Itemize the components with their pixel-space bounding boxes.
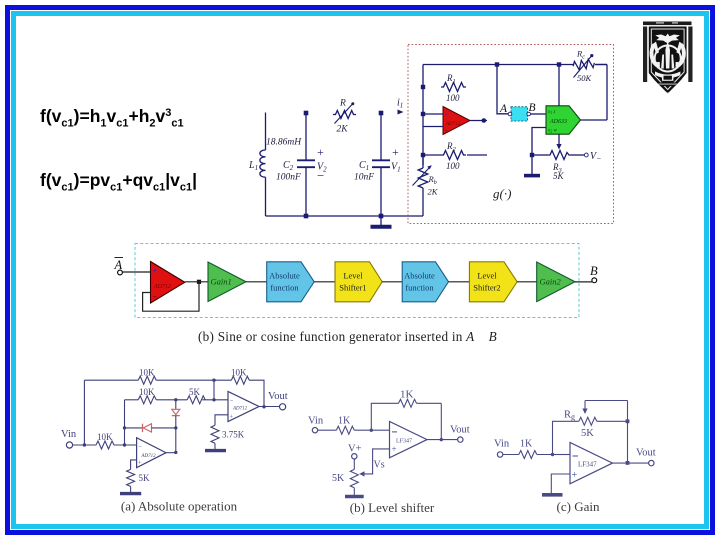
- svg-text:5K: 5K: [332, 473, 345, 484]
- block Level Shifter1 (yellow pentagon): [335, 262, 382, 302]
- wire top: [423, 64, 573, 66]
- wire output (b): [427, 439, 458, 441]
- dashed box g(.): [408, 45, 614, 224]
- ground: [371, 216, 392, 227]
- svg-text:(b) Sine or cosine function ge: (b) Sine or cosine function generator in…: [198, 329, 497, 344]
- wire row2: [125, 399, 139, 401]
- svg-text:10K: 10K: [231, 368, 247, 378]
- wire op-amp inputs: [423, 114, 443, 127]
- wire diode branch vertical: [175, 428, 177, 453]
- terminal V+: [348, 444, 362, 459]
- node Rg right: [626, 419, 630, 423]
- wire feedback up (b): [371, 403, 398, 430]
- svg-text:+: +: [572, 470, 578, 481]
- svg-text:5K: 5K: [553, 171, 565, 181]
- node left 2: [421, 112, 425, 116]
- node row2 diode branch: [174, 398, 177, 401]
- svg-text:Shifter1: Shifter1: [339, 283, 366, 293]
- diode D1 (red, vertical): [172, 400, 180, 428]
- op-amp LF347 (b): [390, 422, 428, 458]
- wire Vin input: [73, 444, 96, 446]
- wire op1 plus input: [131, 460, 137, 470]
- svg-text:Vs: Vs: [374, 460, 385, 471]
- op-amp AD712 (red): [151, 262, 185, 304]
- potentiometer R3 5K: [532, 151, 584, 182]
- node output (b): [440, 438, 443, 441]
- svg-text:Shifter2: Shifter2: [473, 283, 500, 293]
- svg-text:AD712: AD712: [153, 284, 171, 290]
- svg-text:(c) Gain: (c) Gain: [557, 499, 600, 514]
- wire B to multiplier: [531, 113, 547, 115]
- wire wiper arrow: [556, 134, 561, 149]
- svg-text:Vin: Vin: [308, 416, 324, 427]
- wire multiplier lower pin to ground node: [532, 128, 546, 175]
- svg-text:Vout: Vout: [636, 448, 656, 459]
- svg-text:Level: Level: [477, 271, 497, 281]
- svg-text:10K: 10K: [139, 368, 155, 378]
- svg-text:−: −: [317, 168, 324, 183]
- svg-text:3.75K: 3.75K: [222, 430, 245, 440]
- node left 1: [421, 85, 425, 89]
- svg-text:1K: 1K: [400, 389, 414, 401]
- wire top row: [84, 379, 138, 381]
- svg-text:10K: 10K: [97, 432, 113, 442]
- wire Absolute2 to LevelShifter2: [449, 281, 470, 283]
- terminal B: [590, 264, 598, 283]
- resistor R2 100: [423, 141, 487, 171]
- svg-text:+: +: [392, 444, 397, 454]
- svg-text:AD633: AD633: [549, 119, 567, 125]
- multiplier U2 AD633: [546, 106, 581, 135]
- node op2 inverting: [212, 398, 215, 401]
- wire feedback loop: [143, 282, 199, 311]
- resistor 5K to ground: [127, 469, 150, 486]
- svg-text:function: function: [270, 283, 299, 293]
- wire wiper loop top: [582, 401, 627, 415]
- wire V+ to pot: [353, 459, 355, 469]
- node top mid: [212, 379, 215, 382]
- svg-text:Absolute: Absolute: [269, 271, 300, 281]
- resistor 5K row2: [187, 387, 228, 404]
- svg-text:5K: 5K: [581, 428, 594, 439]
- capacitor C2: [276, 111, 327, 216]
- svg-text:function: function: [405, 283, 434, 293]
- node output (c): [626, 461, 630, 465]
- svg-text:−: −: [230, 398, 234, 405]
- block A-B (cyan): [508, 107, 530, 121]
- svg-text:Vin: Vin: [61, 429, 77, 440]
- wire Gain2 to B: [575, 281, 592, 283]
- svg-text:B: B: [529, 102, 536, 114]
- svg-text:10nF: 10nF: [354, 173, 374, 183]
- svg-text:R: R: [339, 99, 346, 109]
- node vin op1: [123, 443, 126, 446]
- svg-text:2K: 2K: [337, 125, 349, 135]
- svg-text:5K: 5K: [139, 473, 151, 483]
- wire top right segment: [596, 64, 607, 66]
- node top multiplier-branch: [557, 62, 561, 66]
- potentiometer Rg 5K: [564, 410, 628, 440]
- svg-text:+: +: [317, 145, 324, 159]
- resistor 10K top feedforward: [138, 368, 231, 385]
- wire multiplier output: [581, 119, 608, 121]
- node ground branch: [530, 153, 534, 157]
- node Vin branch: [83, 443, 86, 446]
- wire Absolute1 to LevelShifter1: [314, 281, 335, 283]
- wire top-to-row2: [213, 380, 215, 400]
- current label i1: [397, 98, 404, 115]
- svg-text:B: B: [590, 264, 598, 278]
- svg-text:+: +: [153, 267, 158, 276]
- terminal Vout (c): [636, 448, 656, 466]
- wire op2 plus input: [215, 415, 228, 426]
- svg-text:(b) Level shifter: (b) Level shifter: [350, 500, 435, 515]
- block Absolute function 1 (blue pentagon): [267, 262, 315, 302]
- svg-text:AD712: AD712: [232, 407, 248, 412]
- svg-text:100: 100: [446, 161, 460, 171]
- wire A branch: [497, 65, 508, 114]
- svg-text:18.86mH: 18.86mH: [266, 138, 302, 148]
- svg-text:+: +: [138, 460, 142, 467]
- terminal Vin (a): [61, 429, 77, 448]
- terminal Vout (a): [268, 391, 288, 410]
- resistor 3.75K: [211, 425, 245, 443]
- wire Vin (c): [503, 454, 519, 456]
- svg-text:Vin: Vin: [494, 439, 510, 450]
- resistor Rc 50K (variable): [572, 49, 607, 84]
- wire output (c): [613, 462, 649, 464]
- op-amp LF347 (c): [570, 443, 613, 484]
- svg-text:LF347: LF347: [396, 439, 412, 445]
- op-amp U1 (red): [443, 107, 470, 135]
- inductor L1: [248, 113, 302, 217]
- node top A-branch: [495, 62, 499, 66]
- node inverting (c): [551, 453, 554, 456]
- wire op2 output: [259, 406, 279, 408]
- wire Gain1 to Absolute1: [246, 281, 267, 283]
- ground (b): [345, 488, 364, 497]
- block Level Shifter2 (yellow pentagon): [469, 262, 517, 302]
- node left 3: [421, 153, 425, 157]
- resistor Rb 2K (variable): [413, 157, 439, 216]
- wire up to Rg row: [553, 421, 579, 454]
- svg-text:100nF: 100nF: [276, 173, 301, 183]
- svg-text:Gain2: Gain2: [540, 277, 562, 287]
- op-amp A2: [228, 392, 259, 422]
- wire A to op-amp: [122, 271, 150, 273]
- svg-text:1K: 1K: [338, 416, 351, 427]
- svg-text:−: −: [153, 292, 158, 301]
- svg-text:Vout: Vout: [268, 391, 288, 402]
- wire Vin up branch: [83, 380, 85, 445]
- wire row3: [125, 427, 143, 429]
- ground op2: [205, 443, 226, 450]
- wire right vertical: [606, 65, 608, 121]
- svg-text:Level: Level: [343, 271, 363, 281]
- svg-text:Vout: Vout: [450, 425, 470, 436]
- terminal V-: [584, 151, 601, 163]
- terminal Vout (b): [450, 425, 470, 443]
- svg-text:AD712: AD712: [445, 122, 461, 127]
- svg-text:g(·): g(·): [493, 186, 511, 201]
- resistor R 2K (variable): [333, 99, 356, 135]
- wire multiplier top pin: [558, 65, 560, 106]
- svg-text:LF347: LF347: [578, 461, 597, 469]
- wire left vertical: [422, 65, 424, 166]
- wire Vin (b): [318, 429, 337, 431]
- terminal Vin (c): [494, 439, 510, 458]
- wire op1 output: [166, 452, 176, 454]
- logo: [643, 22, 693, 94]
- svg-text:100: 100: [446, 93, 460, 103]
- svg-text:2K: 2K: [428, 187, 439, 197]
- potentiometer 5K (b): [332, 469, 358, 487]
- node output: [262, 405, 265, 408]
- svg-text:(a) Absolute operation: (a) Absolute operation: [121, 499, 238, 514]
- wire LevelShifter2 to Gain2: [517, 281, 537, 283]
- wire feedback down (b): [440, 403, 442, 439]
- capacitor C1: [354, 111, 401, 216]
- node op1 output: [174, 451, 177, 454]
- ground op1: [120, 486, 141, 493]
- node op-amp output: [482, 118, 487, 123]
- svg-text:Gain1: Gain1: [211, 277, 232, 287]
- svg-text:+: +: [445, 112, 449, 119]
- wire wiper Vs: [359, 449, 389, 477]
- wire op minus input (c): [554, 454, 570, 456]
- resistor 10K feedback op2: [231, 368, 264, 408]
- diode D2 (red, horizontal): [143, 424, 176, 432]
- resistor 1K feedback (b): [399, 389, 442, 408]
- wire LevelShifter1 to Absolute2: [382, 281, 402, 283]
- svg-text:+: +: [392, 145, 399, 159]
- junction dot C2 bottom: [304, 214, 309, 219]
- ground (c): [542, 493, 563, 497]
- svg-text:AD712: AD712: [141, 454, 157, 459]
- resistor R1 100: [441, 73, 466, 103]
- node row3 right: [174, 426, 177, 429]
- svg-text:A: A: [499, 103, 508, 115]
- svg-text:5K: 5K: [189, 387, 201, 397]
- svg-text:10K: 10K: [139, 387, 155, 397]
- ground (box): [524, 174, 540, 178]
- svg-text:V+: V+: [348, 444, 362, 455]
- svg-text:−: −: [138, 444, 142, 451]
- resistor 1K input (b): [336, 416, 389, 435]
- wire op-amp to Gain1: [185, 281, 208, 283]
- svg-text:+: +: [230, 414, 234, 421]
- op-amp A1: [137, 438, 166, 468]
- terminal A: [114, 258, 124, 275]
- node op-amp output: [197, 280, 201, 284]
- junction dot C1 bottom: [379, 214, 384, 219]
- resistor 1K (c): [519, 439, 570, 459]
- node inverting (b): [370, 429, 373, 432]
- resistor 10K input: [96, 432, 137, 449]
- dashed block-diagram frame: [135, 244, 579, 318]
- node row3 left: [123, 426, 126, 429]
- resistor 10K row2: [138, 387, 187, 404]
- bottom wire: [266, 215, 424, 217]
- wire op plus input to ground: [551, 474, 570, 493]
- svg-text:1K: 1K: [520, 439, 533, 450]
- gain block Gain2 (green triangle): [537, 262, 575, 302]
- svg-text:Absolute: Absolute: [404, 271, 435, 281]
- svg-text:50K: 50K: [577, 73, 593, 83]
- wire right vertical (c): [627, 401, 629, 463]
- gain block Gain1 (green triangle): [208, 262, 246, 302]
- wire op-amp output: [470, 120, 487, 122]
- wire left vertical rows: [124, 400, 126, 445]
- terminal Vin (b): [308, 416, 324, 433]
- block Absolute function 2 (blue pentagon): [402, 262, 448, 302]
